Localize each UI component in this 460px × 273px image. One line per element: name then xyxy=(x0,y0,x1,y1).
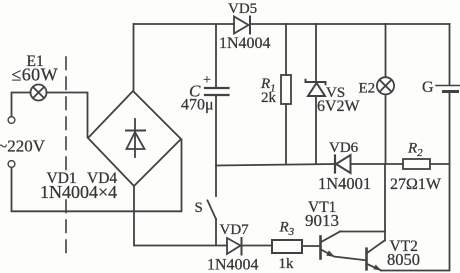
wire E2 branch below mid rail xyxy=(384,164,386,241)
svg-text:1N4004: 1N4004 xyxy=(207,257,259,273)
dashed boundary line upper xyxy=(65,57,67,177)
resistor R1 branch wire lower xyxy=(285,104,287,164)
resistor R2 xyxy=(403,159,430,169)
wire mid rail VD6 to R2 xyxy=(351,163,404,165)
svg-text:1k: 1k xyxy=(279,256,295,272)
wire VT1 collector to E2 branch xyxy=(340,231,385,233)
transistor VT2 xyxy=(367,241,385,271)
wire bridge bottom to bottom rail xyxy=(134,186,227,246)
zener VS branch wire upper xyxy=(315,24,317,81)
lamp E2 branch wire lower xyxy=(385,95,387,165)
svg-text:1N4004×4: 1N4004×4 xyxy=(40,182,117,202)
resistor R1 branch wire upper xyxy=(285,24,287,75)
svg-text:R2: R2 xyxy=(407,141,423,160)
svg-text:VD5: VD5 xyxy=(228,1,257,17)
svg-text:9013: 9013 xyxy=(305,211,339,230)
bridge inner diode xyxy=(126,119,145,157)
svg-text:27Ω1W: 27Ω1W xyxy=(390,176,442,193)
wire R3 to VT1 base xyxy=(302,245,320,247)
resistor R3 xyxy=(272,240,302,253)
capacitor C branch wire lower xyxy=(215,96,217,166)
svg-text:≤60W: ≤60W xyxy=(12,65,58,85)
bridge rectifier VD1-VD4 diamond xyxy=(88,91,181,186)
svg-text:E2: E2 xyxy=(359,81,376,97)
terminal lower xyxy=(8,161,15,168)
wire mid rail left xyxy=(216,164,335,166)
zener diode VS xyxy=(306,80,326,96)
terminal upper xyxy=(8,117,15,124)
svg-text:S: S xyxy=(195,200,203,216)
dashed boundary line lower xyxy=(65,200,67,253)
wire lamp E1 right to bridge left corner xyxy=(47,93,88,138)
svg-text:8050: 8050 xyxy=(387,250,420,269)
capacitor C 470u xyxy=(205,88,229,95)
svg-text:2k: 2k xyxy=(261,90,277,106)
wire lamp E1 left to terminal xyxy=(12,93,31,117)
wire top rail right segment xyxy=(250,23,450,25)
resistor R1 xyxy=(281,75,291,104)
svg-text:1N4004: 1N4004 xyxy=(219,35,271,52)
wire top rail left segment xyxy=(134,23,234,25)
wire battery G down right side xyxy=(381,93,450,271)
svg-text:VD6: VD6 xyxy=(329,140,359,156)
diode VD5 xyxy=(234,17,250,34)
wire VD7 to R3 xyxy=(242,245,272,247)
switch S xyxy=(208,166,217,246)
svg-text:R3: R3 xyxy=(279,220,295,239)
svg-text:VD7: VD7 xyxy=(220,222,250,238)
wire bridge top to rail xyxy=(133,24,135,91)
diode VD6 xyxy=(335,155,351,173)
lamp E2 branch wire upper xyxy=(385,24,387,77)
wire top rail to battery G xyxy=(449,24,451,85)
wire mid rail R2 to right xyxy=(430,163,450,165)
wire lower terminal to bridge right corner xyxy=(12,140,182,212)
svg-text:6V2W: 6V2W xyxy=(317,98,361,115)
lamp E1 xyxy=(31,85,47,101)
diode VD7 xyxy=(227,238,242,255)
transistor VT1 xyxy=(321,232,367,261)
svg-text:+: + xyxy=(203,73,211,88)
lamp E2 xyxy=(377,77,394,94)
zener VS branch wire lower xyxy=(315,97,317,165)
battery G xyxy=(436,86,460,92)
svg-text:1N4001: 1N4001 xyxy=(318,174,371,193)
svg-text:G: G xyxy=(422,79,434,96)
capacitor C1 branch wire upper xyxy=(215,24,217,88)
svg-text:~220V: ~220V xyxy=(0,137,46,156)
svg-text:470μ: 470μ xyxy=(181,97,214,114)
